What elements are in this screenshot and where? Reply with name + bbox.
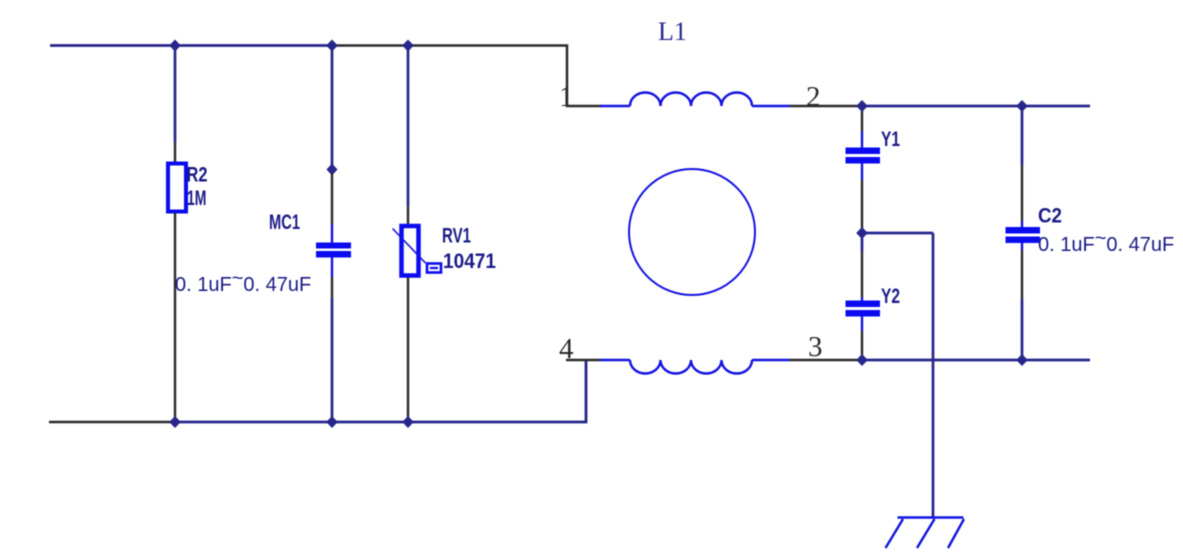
resistor R2 pin bottom black [174,213,176,422]
svg-text:MC1: MC1 [269,211,300,234]
resistor R2 pin top black [174,142,176,163]
capacitor MC1 pin top black [331,173,333,224]
wire ground branch horizontal navy [862,232,933,235]
node dot MC1 top [327,164,338,176]
svg-text:C2: C2 [1038,205,1062,228]
svg-text:R2: R2 [187,164,208,187]
svg-text:3: 3 [808,331,823,363]
capacitor Y2 lead blue bottom [861,317,863,332]
wire MC1 column navy upper [331,46,334,171]
capacitor Y1 pin bottom black [861,180,863,230]
varistor RV1 diagonal [393,229,426,264]
varistor RV1 pin bottom black [407,277,409,422]
wire L1 bottom lead right blue [752,359,789,361]
node dot bottom rail x408 [402,416,414,428]
capacitor Y1 lead blue bottom [861,164,863,181]
capacitor Y2 pin bottom black [861,331,863,358]
wire top rail black segment [332,46,601,107]
node dot Y mid [856,227,868,239]
varistor RV1 marking box [427,264,441,273]
resistor R2 body [168,164,186,212]
varistor RV1 body [402,226,419,276]
capacitor C2 lead blue top [1021,221,1023,228]
pin 3 black lead [789,359,862,362]
node dot C2 top junction [1016,100,1028,112]
inductor L1 bottom winding [630,360,752,374]
svg-text:4: 4 [559,333,574,365]
wire bottom-left rail black segment [49,421,175,424]
capacitor Y1 plates [846,148,881,155]
wire bottom-left rail navy segment [175,360,586,422]
capacitor Y2 pin top black [861,252,863,297]
capacitor C2 plates [1006,227,1041,234]
node dot bottom rail x332 [326,416,338,428]
capacitor C2 pin bottom black [1021,250,1023,299]
wire RV1 column navy upper [407,46,410,207]
svg-text:0. 1uF~0. 47uF: 0. 1uF~0. 47uF [175,268,311,297]
ground symbol [886,518,965,549]
svg-text:RV1: RV1 [442,225,471,248]
node dot top rail x408 [402,40,414,52]
wire ground branch vertical navy [932,233,935,517]
wire top-left rail navy segment [50,44,332,47]
capacitor MC1 lead blue top [331,224,333,243]
wire top-right rail navy [862,105,1090,108]
svg-text:2: 2 [806,81,821,113]
node dot bottom rail x175 [169,416,181,428]
wire L1 top lead right blue [752,105,790,107]
transformer core circle [629,169,755,295]
svg-text:1: 1 [559,81,574,113]
svg-text:Y2: Y2 [881,285,900,308]
wire bottom-right rail navy [862,359,1090,362]
node dot top rail x332 [326,40,338,52]
wire Y mid navy [861,233,864,252]
inductor L1 top winding [630,93,752,107]
wire C2 column navy lower [1021,299,1024,360]
wire C2 column navy upper [1021,106,1024,165]
node dot pin3 junction [856,354,868,366]
capacitor Y2 plates [846,301,881,308]
capacitor MC1 plates [316,243,351,249]
node dot top rail x175 [169,40,181,52]
capacitor Y1 lead blue top [861,131,863,148]
capacitor C2 lead blue bottom [1021,243,1023,250]
svg-text:L1: L1 [658,17,687,46]
node dot pin2 junction [856,100,868,112]
svg-text:1M: 1M [187,187,207,210]
wire L1 top lead left blue [600,105,630,107]
node dot C2 bottom junction [1016,354,1028,366]
wire L1 bottom lead left blue [600,359,630,361]
pin 2 black lead [790,105,862,108]
wire R2 column navy upper [174,46,177,143]
capacitor C2 pin top black [1021,165,1023,221]
svg-text:Y1: Y1 [881,128,900,151]
wire MC1 column navy lower [331,298,334,422]
capacitor MC1 lead blue bottom [331,258,333,278]
capacitor Y2 lead blue top [861,297,863,301]
pin 4 black lead [566,359,601,362]
svg-text:10471: 10471 [443,250,496,273]
capacitor Y1 pin top black [861,107,863,131]
svg-text:0. 1uF~0. 47uF: 0. 1uF~0. 47uF [1038,228,1174,257]
capacitor MC1 pin bottom black [331,277,333,298]
varistor RV1 pin top black [407,206,409,224]
